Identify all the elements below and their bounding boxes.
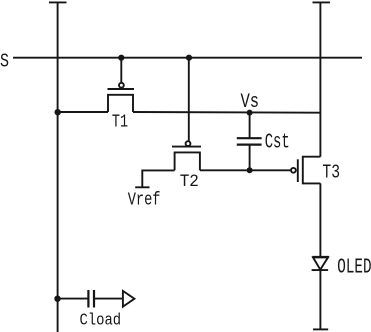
capacitor Cst (237, 112, 262, 170)
wire: scan line S (13, 57, 362, 59)
terminal bar: right rail top (313, 1, 331, 3)
svg-text:Cst: Cst (265, 130, 290, 155)
output arrow (123, 291, 134, 307)
terminal bar: Vref (135, 186, 149, 188)
junction: row 2 at Cst bottom (247, 167, 253, 173)
svg-text:Vref: Vref (128, 189, 161, 211)
svg-text:T1: T1 (112, 111, 128, 133)
svg-text:Vs: Vs (241, 91, 260, 114)
wire: row 1 right segment (T1 to right rail) (133, 111, 320, 114)
terminal bar: right rail bottom (313, 328, 328, 330)
wire: right rail below OLED (319, 270, 321, 329)
wire: right column rail upper segment (319, 2, 321, 157)
svg-text:T3: T3 (322, 162, 340, 184)
wire: T2 source to Vref terminal (142, 170, 174, 187)
wire: row 1 left segment (left rail to T1) (58, 111, 108, 113)
junction: S line to T2 gate feed (186, 55, 192, 61)
svg-text:T2: T2 (180, 172, 199, 192)
wire: left column rail (57, 2, 59, 332)
capacitor Cload (88, 290, 123, 308)
junction: left rail to row 1 (55, 109, 61, 115)
wire: row 2 (T2 drain to T3 gate) (200, 169, 291, 171)
junction: row 1 at Vs node (247, 110, 253, 116)
wire: T1 gate lead (120, 58, 122, 83)
transistor T1 (108, 83, 135, 112)
junction: S line to T1 gate (118, 55, 124, 61)
wire: T2 gate feed vertical (188, 58, 190, 142)
wire: Cload left lead (58, 298, 89, 300)
svg-text:S: S (0, 51, 9, 73)
svg-text:OLED: OLED (337, 254, 371, 279)
svg-text:Cload: Cload (80, 311, 122, 330)
diode OLED (312, 257, 329, 270)
terminal bar: left rail top (49, 1, 67, 3)
transistor T2 (172, 141, 201, 170)
junction: left rail to Cload branch (54, 296, 60, 302)
transistor T3 (291, 157, 320, 184)
wire: right rail between T3 and OLED (319, 183, 321, 256)
